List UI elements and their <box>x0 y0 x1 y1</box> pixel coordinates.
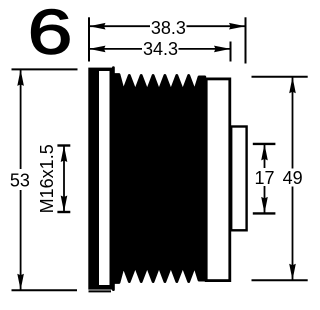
dimension 38.3 dimension line <box>89 25 150 27</box>
pulley right flange outer profile <box>205 78 231 283</box>
pulley ribbed belt section <box>113 68 204 290</box>
pulley hub outer profile <box>230 125 248 231</box>
dimension 49 top arrowhead <box>289 77 296 94</box>
dimension 53 top extension line <box>12 68 78 70</box>
dimension 38.3 left arrowhead <box>89 23 106 30</box>
dimension 38.3 left extension line <box>88 17 90 61</box>
dimension 17 dimension line <box>264 144 266 168</box>
dimension 34.3 right arrowhead <box>214 46 231 53</box>
svg-text:53: 53 <box>10 171 30 191</box>
dimension 38.3 right extension line <box>245 17 247 63</box>
svg-text:38.3: 38.3 <box>151 18 186 38</box>
thread dimension M16x1.5 bottom arrowhead <box>61 196 68 213</box>
pulley left flange outer profile <box>88 68 113 290</box>
dimension 53 dimension line <box>20 69 22 169</box>
dimension 17 top tick <box>253 143 276 145</box>
dimension 53 top arrowhead <box>17 69 24 86</box>
svg-text:M16x1.5: M16x1.5 <box>37 144 57 213</box>
pulley left flange face <box>99 71 110 285</box>
dimension 49 bottom arrowhead <box>289 264 296 281</box>
pulley right flange face <box>208 80 229 279</box>
thread dimension M16x1.5 top tick <box>57 144 70 146</box>
thread dimension M16x1.5 dimension line <box>63 146 65 213</box>
dimension 49 bottom extension line <box>252 279 308 281</box>
svg-text:17: 17 <box>254 168 274 188</box>
dimension 17 top arrowhead <box>261 144 268 161</box>
svg-text:34.3: 34.3 <box>143 39 178 59</box>
svg-text:6: 6 <box>28 0 73 67</box>
dimension 38.3 right arrowhead <box>229 23 246 30</box>
svg-text:49: 49 <box>283 168 303 188</box>
dimension 34.3 left arrowhead <box>89 46 106 53</box>
thread dimension M16x1.5 bottom tick <box>57 211 70 213</box>
dimension 49 top extension line <box>252 76 308 78</box>
dimension 53 bottom extension line <box>12 289 78 291</box>
dimension 34.3 right extension line <box>230 42 232 62</box>
thread dimension M16x1.5 top arrowhead <box>61 146 68 163</box>
dimension 53 bottom arrowhead <box>17 274 24 291</box>
dimension 17 bottom tick <box>253 212 276 214</box>
dimension 17 bottom arrowhead <box>261 197 268 214</box>
pulley hub face <box>232 128 245 229</box>
dimension 34.3 dimension line <box>89 48 142 50</box>
dimension 49 dimension line <box>292 77 294 169</box>
